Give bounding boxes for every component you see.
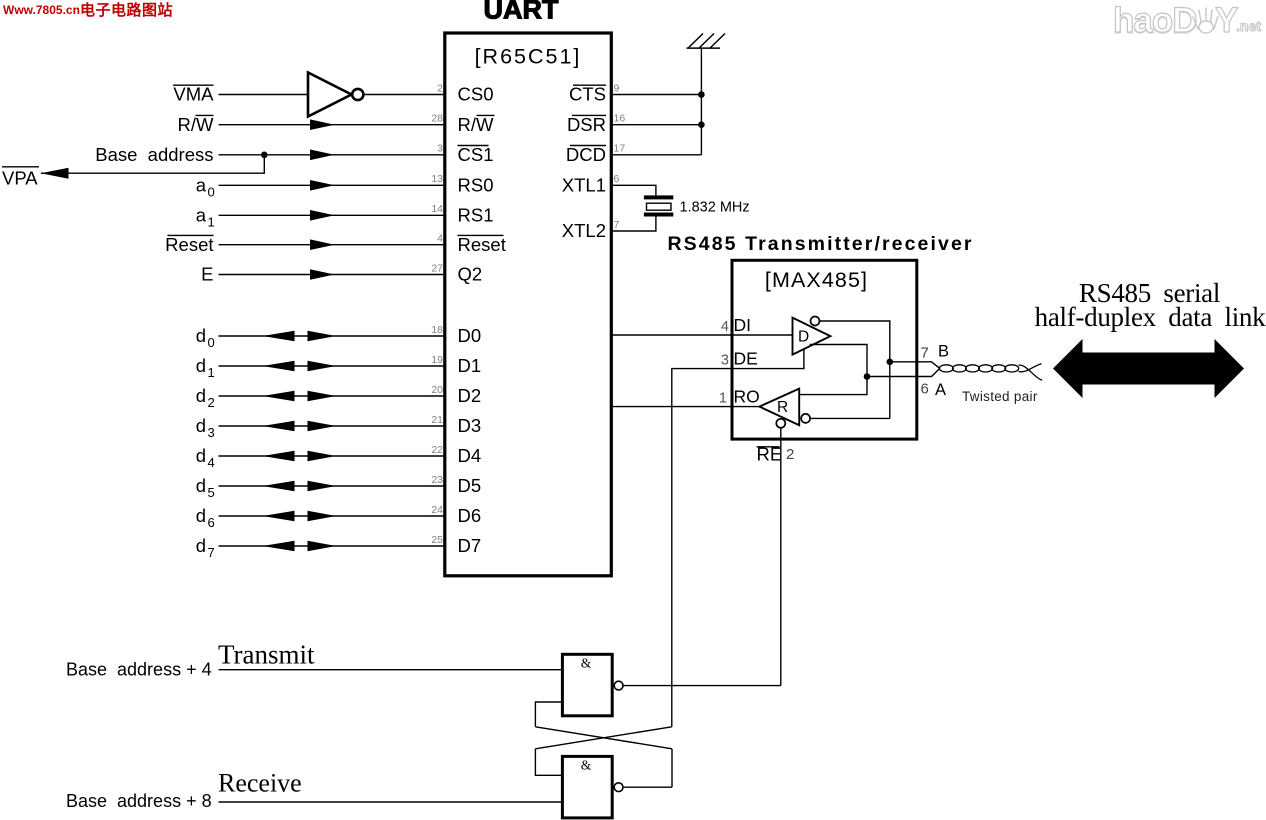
svg-text:25: 25	[431, 534, 443, 546]
wire d1 bidirectional to U1 D1	[219, 365, 445, 367]
svg-text:2: 2	[437, 82, 443, 94]
svg-text:&: &	[581, 656, 592, 671]
wire G2 output riser	[671, 749, 673, 787]
svg-text:14: 14	[431, 203, 443, 215]
crystal Y1	[644, 195, 673, 216]
wire D inverted out to B rail	[820, 321, 890, 418]
svg-text:D7: D7	[458, 535, 482, 556]
junction CTS/rail	[698, 91, 705, 98]
svg-text:D4: D4	[458, 445, 482, 466]
wire DE: from latch up to U3 pin 3 and driver enable	[672, 349, 804, 727]
wire RE bubble down to latch	[780, 428, 782, 686]
svg-text:R: R	[777, 399, 788, 416]
wire G2 output to riser	[623, 786, 672, 788]
svg-text:CS0: CS0	[458, 84, 494, 105]
G2 output bubble	[614, 783, 623, 792]
wire VMA to inverter	[219, 94, 309, 96]
svg-text:D: D	[798, 328, 809, 345]
wire Receive to gate G2	[219, 801, 563, 803]
svg-text:D6: D6	[458, 505, 482, 526]
svg-text:d: d	[196, 505, 206, 526]
svg-text:E: E	[201, 264, 213, 285]
wire R/W to U1 pin 28	[219, 124, 445, 126]
wire ground rail vertical	[700, 48, 702, 155]
svg-text:B: B	[938, 343, 949, 361]
wire U3 RO pin 1 to U1 RX	[611, 406, 759, 408]
svg-text:RO: RO	[734, 386, 760, 406]
svg-text:20: 20	[431, 384, 443, 396]
logo haoDIY.net	[1113, 1, 1261, 41]
svg-text:4: 4	[437, 233, 443, 245]
svg-text:D2: D2	[458, 385, 482, 406]
svg-text:XTL2: XTL2	[562, 220, 606, 241]
svg-text:21: 21	[431, 414, 443, 426]
wire E to U1 pin 27 Q2	[219, 274, 445, 276]
svg-text:7: 7	[614, 219, 620, 231]
svg-text:3: 3	[208, 425, 215, 440]
svg-text:d: d	[196, 355, 206, 376]
svg-text:Q2: Q2	[458, 264, 483, 285]
svg-text:24: 24	[431, 504, 443, 516]
svg-text:half-duplex data link: half-duplex data link	[1035, 302, 1266, 332]
svg-text:1: 1	[208, 215, 215, 230]
wire Transmit to gate G1	[219, 669, 563, 671]
junction A rail	[864, 373, 871, 380]
svg-text:DCD: DCD	[566, 144, 606, 165]
wire d5 bidirectional to U1 D5	[219, 485, 445, 487]
wire cross diagonal A (to G2 output riser)	[535, 727, 672, 749]
svg-text:2: 2	[208, 395, 215, 410]
svg-text:D1: D1	[458, 355, 482, 376]
svg-text:d: d	[196, 445, 206, 466]
svg-text:1: 1	[719, 390, 727, 406]
svg-text:[R65C51]: [R65C51]	[475, 45, 582, 69]
svg-text:13: 13	[431, 173, 443, 185]
svg-text:d: d	[196, 385, 206, 406]
svg-text:haoD: haoD	[1113, 1, 1197, 40]
svg-text:D0: D0	[458, 325, 482, 346]
svg-text:17: 17	[614, 143, 626, 155]
wire XTL1 to crystal	[611, 185, 656, 195]
svg-text:XTL1: XTL1	[562, 175, 606, 196]
svg-text:Reset: Reset	[165, 234, 213, 255]
svg-text:d: d	[196, 325, 206, 346]
junction node on Base address	[261, 152, 268, 159]
svg-text:Twisted pair: Twisted pair	[962, 389, 1038, 404]
wire XTL2 to crystal	[611, 217, 656, 232]
svg-text:RS485 Transmitter/receiver: RS485 Transmitter/receiver	[668, 233, 974, 255]
svg-text:RS0: RS0	[458, 175, 494, 196]
junction B rail	[887, 359, 894, 366]
wire d2 bidirectional to U1 D2	[219, 395, 445, 397]
driver buffer D of U3	[793, 318, 831, 355]
svg-text:a: a	[196, 175, 207, 196]
wire A to twisted pair, pin 6	[867, 368, 940, 376]
wire Reset to U1 pin 4	[219, 244, 445, 246]
svg-text:6: 6	[614, 173, 620, 185]
svg-text:6: 6	[921, 381, 929, 398]
receiver buffer R of U3	[760, 389, 800, 426]
wire d4 bidirectional to U1 D4	[219, 455, 445, 457]
svg-text:7: 7	[921, 345, 929, 362]
wire a1 to U1	[219, 214, 445, 216]
svg-text:Transmit: Transmit	[218, 640, 315, 670]
svg-text:0: 0	[208, 185, 215, 200]
svg-text:.net: .net	[1236, 18, 1261, 34]
svg-text:9: 9	[614, 82, 620, 94]
svg-text:5: 5	[208, 485, 215, 500]
inverter U2	[308, 73, 352, 117]
IC U1 UART R65C51 body	[445, 33, 612, 576]
wire U1 TX to U3 DI pin 4	[611, 334, 792, 336]
wire a0 to U1	[219, 184, 445, 186]
svg-text:D5: D5	[458, 475, 482, 496]
wire Base address to U1 pin 3 CS1	[219, 154, 445, 156]
svg-text:d: d	[196, 475, 206, 496]
svg-text:DSR: DSR	[567, 114, 606, 135]
svg-text:R/W: R/W	[178, 114, 215, 135]
wire d3 bidirectional to U1 D3	[219, 425, 445, 427]
nand gate G2 body	[562, 756, 612, 818]
svg-text:7: 7	[208, 545, 215, 560]
wire CTS to ground rail	[611, 94, 701, 96]
svg-text:Base address: Base address	[95, 144, 213, 165]
svg-text:VPA: VPA	[2, 168, 38, 189]
svg-text:16: 16	[614, 113, 626, 125]
wire B to twisted pair, pin 7	[890, 362, 940, 369]
svg-text:4: 4	[721, 319, 729, 335]
svg-text:1.832 MHz: 1.832 MHz	[680, 199, 750, 215]
svg-text:d: d	[196, 415, 206, 436]
wire G1 second input from cross coupling	[535, 702, 562, 727]
wire R inverting input to B rail	[810, 417, 890, 419]
svg-text:Reset: Reset	[458, 234, 506, 255]
wire G1 output to RE rail	[623, 685, 781, 687]
svg-text:RS1: RS1	[458, 205, 494, 226]
svg-text:A: A	[935, 381, 946, 399]
svg-text:&: &	[581, 758, 592, 773]
svg-text:0: 0	[208, 335, 215, 350]
svg-text:22: 22	[431, 444, 443, 456]
wire cross diagonal B (DE to G2 input riser)	[535, 727, 671, 749]
svg-text:VMA: VMA	[173, 84, 214, 105]
svg-text:[MAX485]: [MAX485]	[765, 268, 868, 292]
svg-text:Receive: Receive	[218, 769, 302, 798]
svg-text:DI: DI	[734, 315, 752, 335]
svg-text:23: 23	[431, 474, 443, 486]
svg-text:3: 3	[437, 143, 443, 155]
twisted pair cable	[939, 364, 1042, 381]
svg-text:1: 1	[208, 365, 215, 380]
double-headed arrow RS485 bus	[1053, 339, 1244, 398]
svg-text:2: 2	[786, 446, 794, 463]
junction DSR/rail	[698, 121, 705, 128]
svg-text:28: 28	[431, 113, 443, 125]
wire inverter output to U1 pin 2 CS0	[363, 94, 444, 96]
svg-text:R/W: R/W	[458, 114, 495, 135]
wire d7 bidirectional to U1 D7	[219, 545, 445, 547]
wire G2 second input riser	[535, 749, 562, 776]
svg-text:3: 3	[721, 352, 729, 368]
svg-text:Base address + 4: Base address + 4	[66, 660, 212, 680]
transceiver U3 MAX485 IC body	[732, 260, 917, 439]
svg-text:DE: DE	[734, 348, 758, 368]
svg-text:D3: D3	[458, 415, 482, 436]
svg-text:18: 18	[431, 324, 443, 336]
svg-text:a: a	[196, 205, 207, 226]
ground (chassis) symbol	[687, 34, 726, 49]
receiver enable bubble (RE)	[776, 419, 785, 428]
svg-text:UART: UART	[484, 0, 559, 25]
arrowhead VPA (points left)	[41, 168, 69, 179]
receiver inverting input bubble	[801, 414, 810, 423]
wire D output to A rail	[799, 345, 867, 395]
svg-text:4: 4	[208, 455, 215, 470]
svg-text:Base address + 8: Base address + 8	[66, 791, 212, 811]
wire branch to VPA	[41, 155, 264, 173]
svg-text:Y: Y	[1215, 1, 1238, 40]
G1 output bubble	[614, 681, 623, 690]
wire d0 bidirectional to U1 D0	[219, 335, 445, 337]
svg-text:电子电路图站: 电子电路图站	[80, 1, 173, 19]
nand gate G1 body	[562, 654, 612, 716]
driver inverting output bubble	[811, 317, 820, 326]
wire DSR to ground rail	[611, 124, 701, 126]
svg-text:CS1: CS1	[458, 144, 494, 165]
svg-text:CTS: CTS	[569, 84, 606, 105]
svg-text:Www.7805.cn: Www.7805.cn	[3, 3, 80, 17]
svg-text:6: 6	[208, 515, 215, 530]
svg-text:27: 27	[431, 262, 443, 274]
wire d6 bidirectional to U1 D6	[219, 515, 445, 517]
svg-text:19: 19	[431, 354, 443, 366]
wire DCD to ground rail	[611, 154, 701, 156]
svg-text:d: d	[196, 535, 206, 556]
